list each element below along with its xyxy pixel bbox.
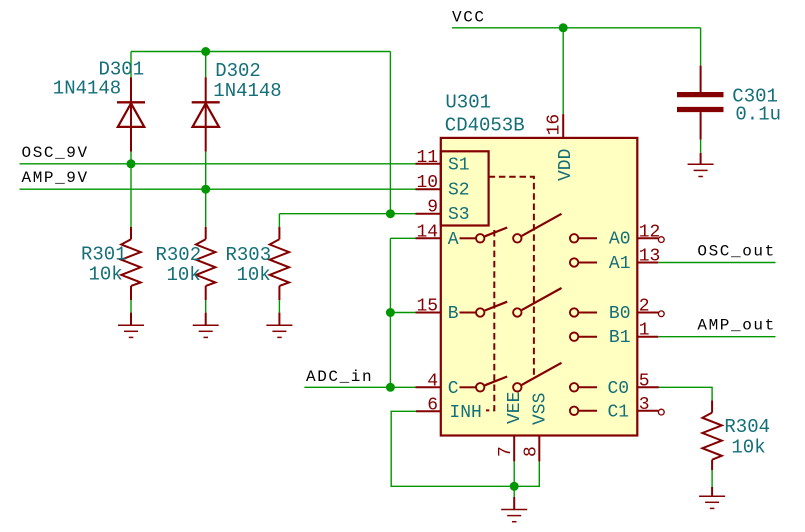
junction C / ADC_in [386,383,395,392]
switch B [460,288,562,317]
no-connect circle pin 2 [658,311,664,317]
svg-text:11: 11 [417,148,439,168]
svg-text:A0: A0 [609,230,631,250]
svg-text:B1: B1 [609,328,631,348]
junction VEE / VSS / ground [510,482,519,491]
no-connect circle pin 3 [658,409,664,415]
pin 11 lead [416,163,441,165]
svg-text:8: 8 [521,446,541,457]
wire C301 to ground [700,140,702,153]
ground under C301 [688,153,714,177]
pin 10 lead [416,188,441,190]
svg-text:B0: B0 [609,304,631,324]
svg-text:AMP_9V: AMP_9V [22,169,89,187]
svg-text:1N4148: 1N4148 [53,77,121,99]
switch A [460,214,562,243]
wire S3 rail to R303 corner [278,214,280,227]
pin 2 lead [637,312,658,314]
ground bottom center [501,497,527,522]
ground under R303 [266,313,292,338]
svg-text:VCC: VCC [452,8,486,26]
svg-text:9: 9 [427,198,438,218]
resistor R302 [196,227,215,300]
svg-text:15: 15 [417,297,439,317]
svg-text:S2: S2 [448,181,470,201]
wire R302 to ground [205,300,207,312]
svg-text:13: 13 [639,247,661,267]
svg-text:VSS: VSS [530,393,550,425]
svg-text:12: 12 [639,222,661,242]
pin 15 lead [416,312,441,314]
svg-text:R303: R303 [226,244,272,266]
right contact C1 [570,407,597,415]
svg-text:1N4148: 1N4148 [213,80,281,102]
pin 13 lead [637,262,658,264]
svg-text:6: 6 [427,395,438,415]
wire ADC_in rail [304,386,415,388]
dashed control line from select box [489,177,534,376]
wire VCC down to C301 [700,28,702,66]
svg-text:VEE: VEE [505,392,525,424]
svg-text:CD4053B: CD4053B [445,114,525,136]
svg-text:14: 14 [417,222,439,242]
junction S3 / diode-or [386,209,395,218]
resistor R303 [270,227,289,300]
svg-text:S3: S3 [448,205,470,225]
svg-text:10k: 10k [89,263,123,285]
junction VCC/VDD [559,23,568,32]
right contact C0 [570,383,597,391]
dashed control line to INH [486,230,494,410]
svg-text:R304: R304 [724,416,770,438]
wire INH to ground: horizontal from pin [391,411,539,486]
svg-text:A: A [448,230,459,250]
wire D301 top stub [130,52,132,78]
svg-text:D302: D302 [215,60,261,82]
wire ABC vertical [389,238,391,387]
right contact B1 [570,333,597,341]
svg-text:R301: R301 [81,243,127,265]
no-connect circle pin 12 [658,237,664,243]
svg-text:B: B [448,304,459,324]
pin 3 lead [637,410,658,412]
wire D301 to OSC_9V [130,152,132,164]
pin 1 lead [637,336,658,338]
svg-text:10k: 10k [167,264,201,286]
junction OSC_9V / D301 / R301 [127,159,136,168]
wire VEE stub [513,461,515,497]
wire R304 to ground [711,470,713,487]
junction D302 top [201,47,210,56]
pin 12 lead [637,237,658,239]
wire OSC_out [658,262,775,264]
svg-text:4: 4 [427,371,438,391]
svg-text:U301: U301 [445,92,491,114]
pin 4 lead [416,386,441,388]
svg-text:VDD: VDD [556,149,576,181]
pin 7 lead [513,436,515,462]
wire AMP_9V to R302 [205,189,207,227]
wire VCC horizontal [452,27,701,29]
right contact A1 [570,258,597,266]
wire top corner down to S3 [389,52,391,214]
wire OSC_9V to R301 [130,164,132,227]
resistor R304 [702,400,721,470]
junction AMP_9V / D302 / R302 [201,185,210,194]
wire VCC to VDD vertical [562,28,564,114]
svg-text:10k: 10k [237,264,271,286]
select box S1 S2 S3 [441,151,489,225]
pin 14 lead [416,237,441,239]
svg-text:INH: INH [449,403,481,423]
wire S3 rail [279,213,415,215]
svg-text:2: 2 [639,297,650,317]
svg-text:0.1u: 0.1u [735,104,781,126]
wire OSC_9V rail [20,163,416,165]
capacitor C301 [677,66,724,140]
right contact B0 [570,308,597,316]
resistor R301 [121,227,140,300]
svg-text:C: C [448,379,459,399]
wire B stub [390,312,415,314]
wire C0 to R304 [659,387,712,400]
wire R303 to ground [278,300,280,312]
diode D302 [192,77,220,151]
junction B / ABC vertical [386,308,395,317]
wire D302 top stub [205,52,207,78]
svg-text:AMP_out: AMP_out [697,317,775,335]
wire R301 to ground [130,300,132,312]
IC U301 CD4053B body [441,138,638,436]
pin 9 lead [416,213,441,215]
svg-text:C1: C1 [608,402,630,422]
ground under R304 [699,487,725,508]
svg-text:R302: R302 [156,244,202,266]
wire A stub [390,237,415,239]
wire AMP_out [658,336,775,338]
svg-text:OSC_9V: OSC_9V [22,144,89,162]
wire D302 to AMP_9V [205,152,207,190]
wire diode-or top [131,51,390,53]
svg-text:S1: S1 [448,155,470,175]
svg-text:10k: 10k [731,436,765,458]
svg-text:OSC_out: OSC_out [697,242,775,260]
svg-text:16: 16 [544,114,564,136]
pin 16 lead [562,114,564,138]
svg-text:C0: C0 [608,379,630,399]
svg-text:ADC_in: ADC_in [306,368,373,386]
pin 6 lead [416,410,441,412]
svg-text:7: 7 [496,446,516,457]
svg-text:3: 3 [639,395,650,415]
svg-text:5: 5 [639,371,650,391]
wire AMP_9V rail [20,188,416,190]
right contact A0 [570,234,597,242]
diode D301 [117,77,145,151]
svg-text:1: 1 [639,321,650,341]
ground under R302 [193,313,219,338]
switch C [460,363,562,392]
svg-text:A1: A1 [609,254,631,274]
pin 8 lead [538,436,540,462]
ground under R301 [118,313,144,338]
pin 5 lead [637,386,659,388]
svg-text:10: 10 [417,173,439,193]
